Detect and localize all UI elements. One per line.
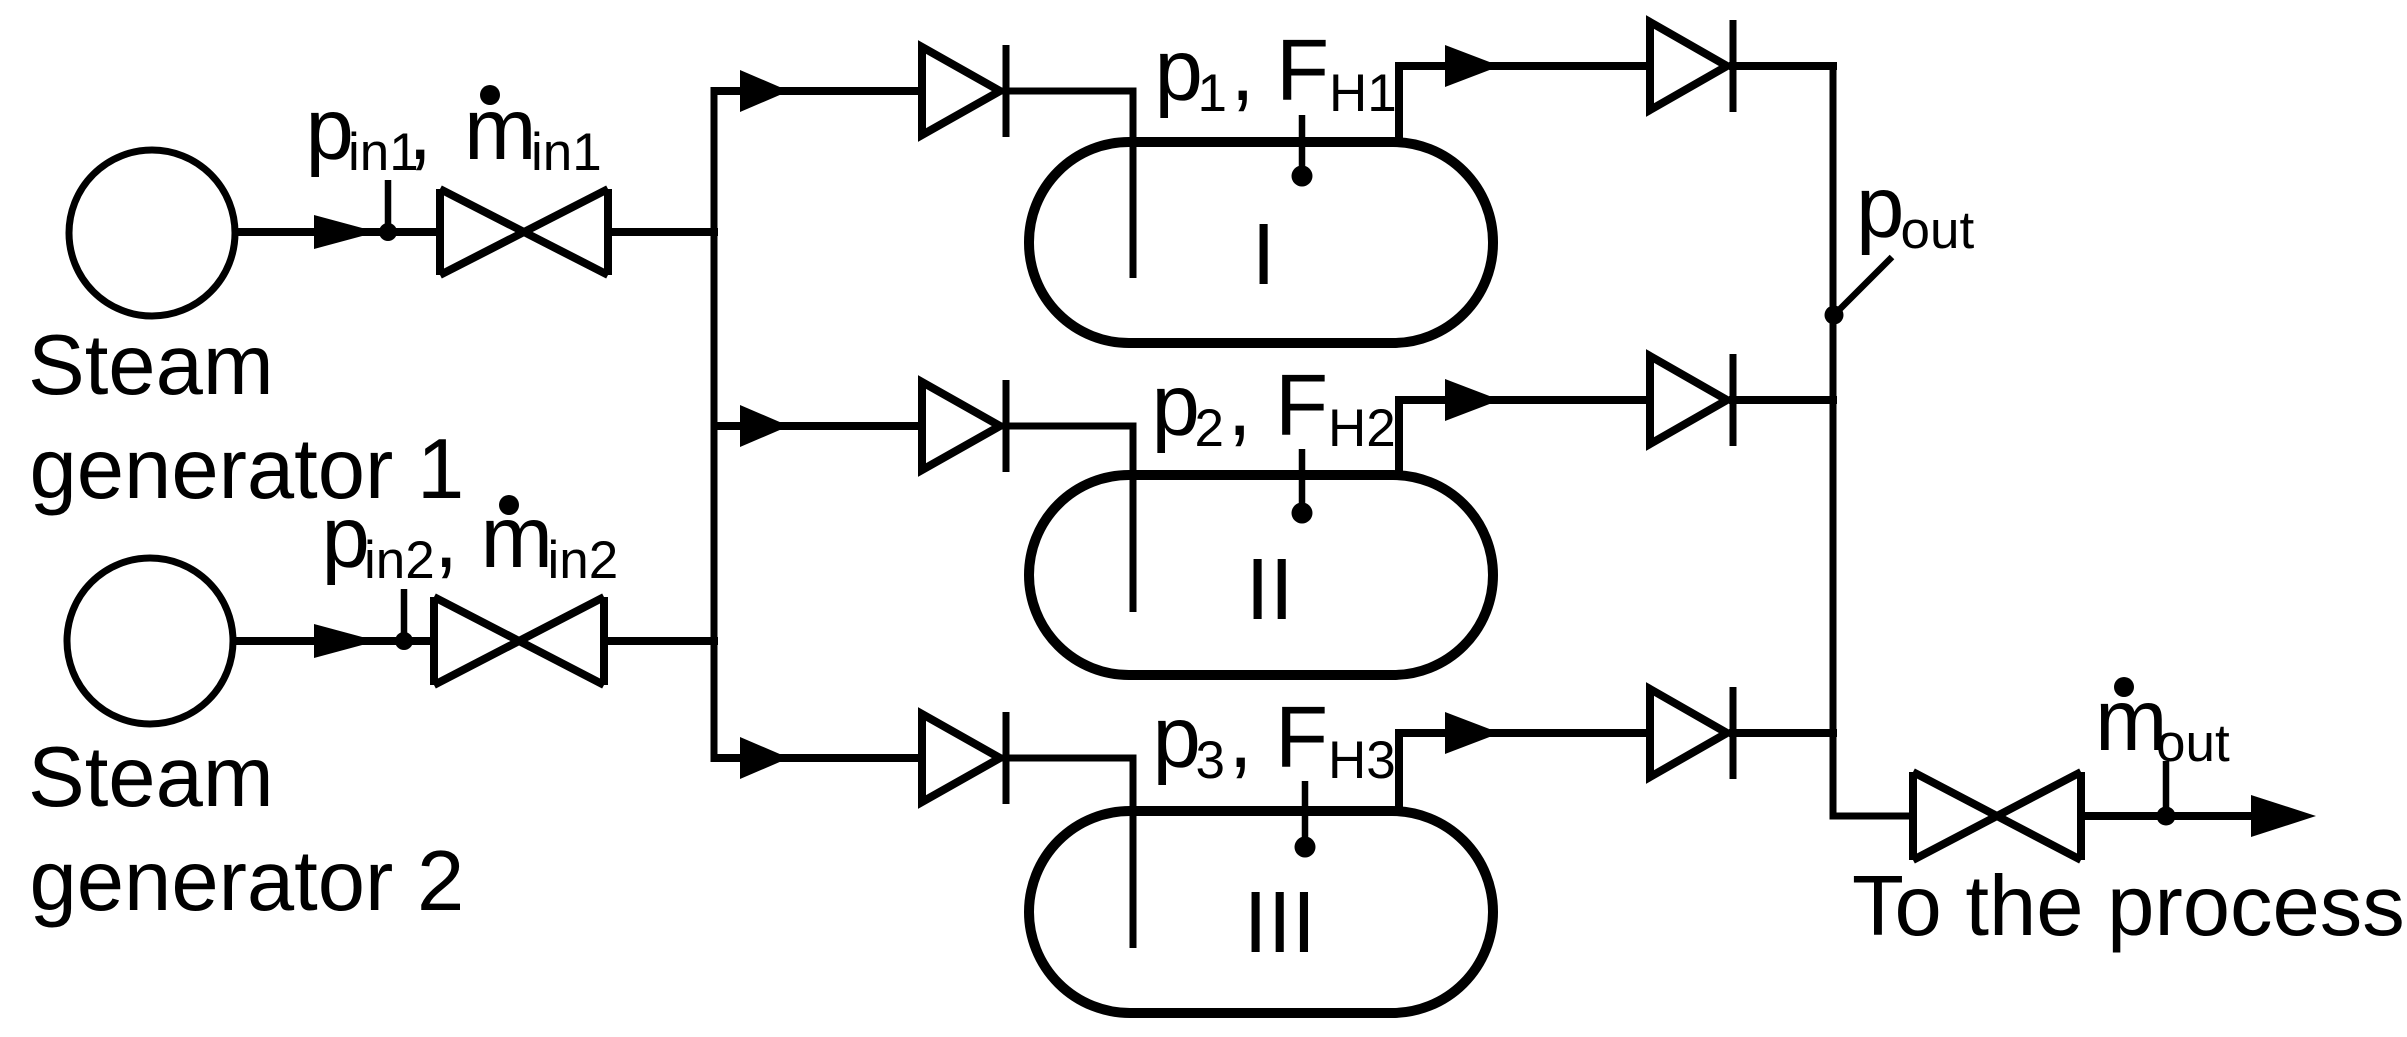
sensor tick line vessel I: [1299, 115, 1306, 170]
svg-text:in2: in2: [548, 531, 619, 590]
label p_3, F_H3: [1153, 689, 1396, 790]
wire CV1 to vessel I inlet dip tube: [1002, 91, 1133, 278]
wire V1 to manifold: [608, 228, 718, 236]
vessel II shell: [1029, 475, 1493, 675]
flow arrow on SG2 line: [314, 624, 377, 658]
svg-text:1: 1: [1198, 64, 1227, 123]
steam generator SG1 circle: [69, 150, 235, 316]
svg-text:2: 2: [1195, 399, 1224, 458]
vessel III shell: [1029, 811, 1493, 1013]
flow arrow outlet 1: [1445, 45, 1500, 87]
check valve CV1 triangle: [922, 47, 1000, 135]
node dot p_in1 tap: [379, 223, 397, 241]
svg-text:To the process: To the process: [1852, 859, 2405, 954]
label p_1, F_H1: [1155, 22, 1397, 123]
svg-text:F: F: [1275, 357, 1328, 454]
check valve CV6 triangle: [1650, 689, 1727, 777]
svg-text:p: p: [1155, 22, 1203, 119]
svg-text:III: III: [1244, 874, 1317, 971]
check valve CV3 seat bar: [1003, 712, 1010, 804]
svg-text:p: p: [1856, 159, 1904, 256]
label p_2, F_H2: [1152, 357, 1396, 458]
valve V1 (gate valve bowtie): [440, 189, 608, 275]
valve V2 (gate valve bowtie): [434, 597, 604, 685]
sensor node dot vessel I: [1292, 166, 1313, 187]
svg-text:p: p: [1152, 357, 1200, 454]
check valve CV3 triangle: [922, 714, 1000, 802]
sensor tick line vessel III: [1302, 781, 1309, 841]
svg-text:,: ,: [1229, 689, 1253, 786]
wire SG1 to valve V1: [235, 228, 442, 236]
svg-text:in2: in2: [364, 531, 435, 590]
sensor tick line vessel II: [1299, 449, 1306, 507]
svg-text:,: ,: [1231, 22, 1255, 119]
node dot p_out tap: [1825, 306, 1844, 325]
wire vessel II outlet riser: [1399, 400, 1654, 475]
check valve CV6 seat bar: [1730, 687, 1737, 779]
svg-text:m: m: [464, 81, 536, 178]
flow arrow to process: [2251, 795, 2316, 837]
tap tick line p_in1: [385, 180, 392, 228]
check valve CV4 seat bar: [1730, 20, 1737, 112]
wire branch 2 from manifold: [711, 422, 927, 430]
svg-text:p: p: [322, 489, 370, 586]
check valve CV2 triangle: [922, 382, 1000, 470]
manifold vertical header: [711, 91, 718, 758]
flow arrow outlet 3: [1445, 712, 1500, 754]
node dot p_in2 tap: [395, 632, 413, 650]
svg-text:I: I: [1252, 206, 1276, 303]
wire CV2 to vessel II inlet dip tube: [1002, 426, 1133, 612]
wire CV6 to collector: [1729, 729, 1837, 737]
flow arrow branch 2: [740, 405, 789, 447]
svg-text:H1: H1: [1329, 64, 1397, 123]
tap tick line p_out: [1838, 257, 1892, 311]
svg-text:,: ,: [1228, 357, 1252, 454]
check valve CV5 triangle: [1650, 356, 1727, 444]
label Steam generator 1: [28, 318, 464, 517]
svg-text:out: out: [2156, 714, 2230, 773]
flow arrow on SG1 line: [314, 215, 377, 249]
wire vessel I outlet riser: [1399, 66, 1654, 142]
valve V3 outlet (bowtie): [1913, 772, 2081, 860]
svg-text:Steam: Steam: [28, 318, 274, 413]
svg-text:in1: in1: [531, 123, 602, 182]
flow arrow branch 3: [740, 737, 789, 779]
wire V3 to process: [2081, 812, 2255, 820]
svg-text:H3: H3: [1328, 731, 1396, 790]
label m_out: [2095, 672, 2230, 773]
svg-text:Steam: Steam: [28, 730, 274, 825]
steam generator SG2 circle: [67, 558, 233, 724]
svg-text:p: p: [1153, 689, 1201, 786]
svg-text:II: II: [1246, 541, 1294, 638]
wire CV5 to collector: [1729, 396, 1837, 404]
wire vessel III outlet riser: [1399, 733, 1654, 810]
label p_in1, m_in1: [306, 81, 602, 182]
wire CV4 to collector: [1729, 62, 1837, 70]
svg-text:,: ,: [408, 81, 432, 178]
flow arrow outlet 2: [1445, 379, 1500, 421]
svg-text:,: ,: [434, 489, 458, 586]
svg-text:p: p: [306, 81, 354, 178]
svg-text:F: F: [1275, 689, 1328, 786]
vessel I shell: [1029, 142, 1493, 343]
tap tick line p_in2: [401, 589, 408, 637]
svg-text:generator 2: generator 2: [30, 834, 465, 929]
sensor node dot vessel III: [1295, 837, 1316, 858]
flow arrow branch 1: [740, 70, 789, 112]
svg-text:generator 1: generator 1: [30, 422, 465, 517]
check valve CV5 seat bar: [1730, 354, 1737, 446]
collector vertical line: [1833, 66, 1917, 816]
label p_out: [1856, 159, 1974, 260]
svg-text:H2: H2: [1328, 399, 1396, 458]
svg-text:3: 3: [1196, 731, 1225, 790]
svg-text:F: F: [1276, 22, 1329, 119]
sensor node dot vessel II: [1292, 503, 1313, 524]
wire branch 3 from manifold: [711, 754, 927, 762]
check valve CV4 triangle: [1650, 22, 1727, 110]
wire branch 1 from manifold: [711, 87, 927, 95]
wire CV3 to vessel III inlet dip tube: [1002, 758, 1133, 948]
label p_in2, m_in2: [322, 489, 619, 590]
check valve CV2 seat bar: [1003, 380, 1010, 472]
wire V2 to manifold: [604, 637, 718, 645]
node dot m_out tap: [2157, 807, 2176, 826]
tap tick line m_out: [2163, 761, 2170, 810]
label Steam generator 2: [28, 730, 464, 929]
wire SG2 to valve V2: [233, 637, 436, 645]
check valve CV1 seat bar: [1003, 45, 1010, 137]
svg-text:out: out: [1901, 201, 1975, 260]
